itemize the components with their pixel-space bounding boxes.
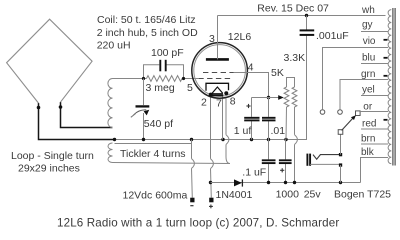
wire pin2 heater down to rail and plus terminal bbox=[211, 97, 214, 198]
transformer tap brn bbox=[361, 143, 388, 145]
resistor 5K pot zigzag bbox=[284, 87, 289, 107]
tube heater triangle bbox=[212, 87, 223, 93]
svg-text:3.3K: 3.3K bbox=[284, 52, 306, 64]
svg-text:540 pf: 540 pf bbox=[144, 118, 173, 130]
svg-text:brn: brn bbox=[361, 134, 375, 145]
node dot rail 1000uF bbox=[284, 181, 287, 184]
wire loop right terminal to coil bottom bbox=[61, 102, 113, 127]
tube grid2 dashes bbox=[203, 72, 234, 74]
transformer tap red bbox=[361, 128, 388, 130]
svg-text:5K: 5K bbox=[271, 67, 284, 79]
supply positive terminal bbox=[209, 198, 213, 203]
headphone jack tip line with V notch bbox=[313, 155, 341, 160]
svg-text:blk: blk bbox=[361, 147, 375, 158]
svg-text:.001uF: .001uF bbox=[316, 30, 349, 42]
svg-text:red: red bbox=[362, 119, 376, 130]
capacitor 540pf bottom lead bbox=[143, 113, 145, 140]
node dot bus 5K bottom bbox=[284, 138, 287, 141]
note coil description bbox=[97, 14, 198, 51]
wire .001uF top lead bbox=[306, 16, 308, 31]
switch contact B bbox=[338, 110, 343, 115]
svg-text:Rev. 15 Dec 07: Rev. 15 Dec 07 bbox=[257, 2, 329, 14]
svg-text:29x29 inches: 29x29 inches bbox=[18, 162, 80, 174]
diode 1N4001 bbox=[234, 179, 242, 186]
svg-text:1N4001: 1N4001 bbox=[216, 189, 253, 201]
node dot bus 12V minus bbox=[190, 138, 193, 141]
svg-text:4: 4 bbox=[248, 62, 254, 74]
node dot bus 1uf bottom bbox=[250, 138, 253, 141]
node dot rail .1uF bbox=[267, 181, 270, 184]
wire tickler bottom to pin8 bbox=[113, 163, 231, 164]
tube plate bar bbox=[206, 58, 229, 61]
svg-text:2 inch hub, 5 inch OD: 2 inch hub, 5 inch OD bbox=[97, 27, 198, 39]
tube grid1 dashes bbox=[198, 78, 230, 80]
label loop antenna bbox=[11, 150, 94, 174]
transformer winding bbox=[388, 10, 391, 164]
tube envelope inner bbox=[194, 45, 246, 97]
inductor tickler coil bbox=[108, 143, 113, 163]
tube 12L6 envelope outer bbox=[192, 43, 248, 99]
node dot rail jack sleeve bbox=[339, 181, 342, 184]
transformer tap yel bbox=[361, 95, 388, 97]
wire 3meg to tube pin5 bbox=[182, 78, 198, 80]
svg-text:grn: grn bbox=[361, 69, 375, 80]
node dot bus 540pf bottom bbox=[142, 138, 145, 141]
label plus bbox=[209, 205, 213, 209]
capacitor 540pf top plate bbox=[136, 105, 150, 107]
wire contact C to or tap bbox=[360, 111, 388, 113]
node dot .001uF top bbox=[305, 14, 308, 17]
node dot jack sleeve bbox=[339, 163, 342, 166]
svg-text:.01: .01 bbox=[271, 125, 286, 137]
svg-text:Tickler 4 turns: Tickler 4 turns bbox=[120, 148, 186, 160]
svg-text:yel: yel bbox=[362, 84, 375, 95]
capacitor 540pf top lead bbox=[143, 79, 145, 106]
switch arm bbox=[342, 118, 353, 130]
transformer tap gy bbox=[361, 31, 388, 33]
resistor 5K pot bracket bbox=[287, 78, 295, 88]
loop antenna diamond bbox=[7, 19, 93, 103]
svg-text:.1 uF: .1 uF bbox=[242, 166, 266, 178]
svg-text:3 meg: 3 meg bbox=[146, 82, 175, 94]
wire contact A to vio tap bbox=[323, 48, 389, 110]
capacitor .001uF plates bbox=[300, 30, 315, 35]
wire +12V rail bbox=[211, 182, 361, 184]
wire ground bus to .001uF bottom bbox=[115, 35, 307, 140]
svg-text:7: 7 bbox=[216, 98, 222, 110]
svg-text:100 pF: 100 pF bbox=[151, 47, 184, 59]
capacitor .1uF leads bbox=[268, 140, 270, 183]
capacitor .01 leads bbox=[268, 98, 270, 140]
wire jack sleeve to rail bbox=[340, 165, 342, 183]
node dot bus pin7 bbox=[221, 138, 224, 141]
label minus bbox=[190, 205, 193, 207]
supply negative terminal bbox=[190, 198, 194, 203]
svg-text:vio: vio bbox=[363, 36, 376, 47]
node dot 540pf top bbox=[142, 77, 145, 80]
resistor 3.3K zigzag bbox=[292, 87, 297, 107]
wire pin3 plate lead bbox=[217, 16, 219, 60]
svg-text:1000: 1000 bbox=[276, 189, 300, 201]
capacitor 540pf arrow bbox=[131, 114, 136, 118]
node dot bus .01 bottom bbox=[267, 138, 270, 141]
label plus 1000uF bbox=[280, 168, 284, 172]
transformer unused tap stubs bbox=[384, 40, 388, 120]
wiper arrowhead bbox=[278, 95, 284, 100]
wire rail corner to blk tap bbox=[361, 158, 389, 183]
wire jack tip to switch pivot bbox=[340, 134, 342, 154]
svg-text:3: 3 bbox=[209, 33, 215, 45]
svg-text:1 uf: 1 uf bbox=[234, 125, 252, 137]
transformer core bbox=[393, 8, 395, 166]
capacitor 100pF plates bbox=[160, 60, 165, 72]
switch contact A bbox=[320, 110, 325, 115]
svg-text:220 uH: 220 uH bbox=[97, 39, 131, 51]
svg-text:12L6 Radio with a 1 turn loop: 12L6 Radio with a 1 turn loop (c) 2007, … bbox=[57, 216, 339, 229]
svg-text:Loop - Single turn: Loop - Single turn bbox=[11, 150, 94, 162]
svg-text:25v: 25v bbox=[304, 189, 322, 201]
switch pivot contact bbox=[338, 130, 343, 135]
wire 5K bottom lead bbox=[285, 107, 288, 140]
capacitor 1000uF leads bbox=[285, 140, 287, 183]
label plus 1uf bbox=[246, 104, 250, 108]
headphone jack sleeve bars bbox=[307, 154, 310, 166]
capacitor 540pf curved plate bbox=[134, 110, 147, 115]
wire contact B to grn tap bbox=[340, 80, 388, 110]
svg-text:Coil: 50 t. 165/46 Litz: Coil: 50 t. 165/46 Litz bbox=[97, 14, 196, 26]
switch contact C bbox=[356, 111, 361, 116]
wire grid wire coil top to 3meg bbox=[113, 78, 147, 80]
wire 3.3K bottom lead with hop bbox=[295, 107, 298, 183]
wire pin4 screen wire bbox=[234, 73, 269, 98]
svg-text:12L6: 12L6 bbox=[228, 31, 252, 43]
svg-text:wh: wh bbox=[361, 5, 375, 16]
svg-text:or: or bbox=[363, 101, 373, 112]
wire loop left terminal to ground bus bbox=[39, 103, 115, 139]
node dot rail 3.3K bbox=[293, 181, 296, 184]
svg-text:12Vdc 600ma: 12Vdc 600ma bbox=[123, 189, 188, 201]
tube cathode box bbox=[206, 83, 229, 91]
capacitor 100pF right lead bbox=[167, 65, 184, 79]
wire pin7 heater to bus bbox=[222, 96, 224, 140]
wire pin8 cathode with hop over bus bbox=[226, 99, 230, 164]
capacitor .01 plates bbox=[262, 118, 276, 121]
wire 12V minus lead with hop bbox=[192, 140, 195, 198]
node dot bus tickler top bbox=[113, 138, 116, 141]
resistor 3 meg bbox=[147, 76, 183, 82]
svg-text:5: 5 bbox=[187, 82, 193, 94]
capacitor 1uf leads bbox=[251, 98, 253, 140]
tube heater base bars bbox=[212, 93, 223, 95]
svg-text:8: 8 bbox=[230, 96, 236, 108]
svg-text:Bogen T725: Bogen T725 bbox=[334, 189, 391, 201]
node loop left dot bbox=[37, 106, 41, 110]
capacitor 1000uF plates bbox=[279, 160, 292, 163]
wire tickler label box top bbox=[115, 143, 192, 145]
wire wiper wire bbox=[252, 97, 280, 99]
capacitor .1uF plates bbox=[262, 160, 276, 163]
transformer tap blu bbox=[361, 63, 388, 65]
svg-text:gy: gy bbox=[362, 19, 373, 30]
inductor main coil bbox=[108, 79, 113, 128]
wire top plate wire to transformer wh bbox=[218, 15, 386, 17]
svg-text:blu: blu bbox=[362, 52, 375, 63]
node loop right dot bbox=[59, 105, 63, 109]
svg-text:2: 2 bbox=[201, 96, 207, 108]
node dot jack tip bbox=[339, 153, 342, 156]
node dot grid right bbox=[182, 77, 185, 80]
capacitor 1uf plates bbox=[244, 118, 259, 121]
tube heater leg arc blobs bbox=[209, 93, 213, 97]
capacitor 100pF left lead bbox=[144, 65, 160, 79]
node dot rail start bbox=[209, 181, 212, 184]
headphone jack sleeve line bbox=[310, 163, 340, 165]
node dot pin4 junction bbox=[267, 96, 270, 99]
